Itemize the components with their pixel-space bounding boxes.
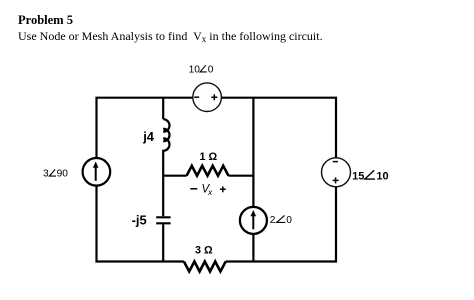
voltage source U1 10&#8736;0 circle bbox=[193, 83, 222, 112]
svg-text:-j5: -j5 bbox=[132, 212, 147, 227]
svg-text:90: 90 bbox=[57, 169, 69, 180]
svg-text:0: 0 bbox=[286, 215, 292, 226]
U1 minus sign bbox=[194, 96, 199, 98]
svg-text:10: 10 bbox=[376, 171, 388, 183]
wire bottom-right corner (right vertical lower + bottom wire right segment) bbox=[226, 187, 336, 262]
title line 1 bbox=[18, 13, 73, 28]
svg-text:1 Ω: 1 Ω bbox=[200, 151, 218, 163]
I1 arrow bbox=[95, 167, 97, 181]
wire bottom-left corner (bottom wire left segment + left vertical lower) bbox=[97, 186, 184, 262]
svg-text:3: 3 bbox=[43, 169, 49, 180]
title line 2 bbox=[18, 29, 323, 44]
svg-text:3 Ω: 3 Ω bbox=[195, 244, 213, 256]
U2 minus sign bbox=[333, 161, 338, 163]
angle symbol of 3&#8736;90 bbox=[49, 169, 56, 176]
wire inductor to capacitor bbox=[162, 150, 164, 217]
svg-text:10: 10 bbox=[189, 64, 201, 75]
wire inductor branch upper bbox=[162, 98, 164, 120]
wire middle branch lower bbox=[252, 234, 254, 262]
current source I1 3&#8736;90 circle bbox=[83, 158, 111, 186]
wire resistor row left bbox=[163, 175, 186, 177]
label Vx polarity minus bbox=[190, 188, 197, 190]
angle symbol of 15&#8736;10 bbox=[365, 170, 375, 179]
wire resistor row right bbox=[229, 175, 254, 177]
label Vx polarity plus bbox=[220, 186, 226, 192]
svg-text:j4: j4 bbox=[142, 129, 155, 144]
wire middle branch upper bbox=[252, 98, 254, 207]
wire top-left corner (left vertical upper + top wire left segment) bbox=[97, 98, 193, 158]
angle symbol of 2&#8736;0 bbox=[277, 215, 286, 222]
svg-text:x: x bbox=[207, 187, 213, 197]
svg-text:15: 15 bbox=[352, 171, 364, 183]
U1 plus sign bbox=[211, 94, 217, 100]
resistor R3 3 Ohm zigzag bbox=[184, 262, 226, 272]
svg-text:2: 2 bbox=[270, 215, 276, 226]
svg-text:0: 0 bbox=[208, 64, 214, 75]
capacitor C1 -j5 plates bbox=[156, 217, 170, 223]
I2 arrow bbox=[252, 215, 254, 229]
U2 plus sign bbox=[333, 177, 339, 183]
inductor L1 j4 coil bbox=[163, 119, 169, 151]
voltage source U2 15&#8736;10 circle bbox=[322, 158, 351, 187]
current source I2 2&#8736;0 circle bbox=[240, 207, 267, 234]
wire capacitor to bottom bbox=[162, 224, 164, 261]
angle symbol of 10&#8736;0 bbox=[200, 65, 207, 72]
resistor R1 1 Ohm zigzag bbox=[187, 166, 229, 176]
wire top-right corner (top wire right segment + right vertical upper) bbox=[222, 98, 337, 158]
